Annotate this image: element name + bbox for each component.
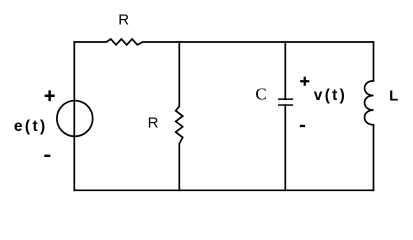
svg-text:R: R [148,114,159,131]
svg-text:C: C [255,84,266,103]
svg-text:R: R [118,12,129,29]
svg-text:v(t): v(t) [314,87,347,104]
svg-text:L: L [389,87,398,104]
svg-text:e(t): e(t) [14,118,48,135]
